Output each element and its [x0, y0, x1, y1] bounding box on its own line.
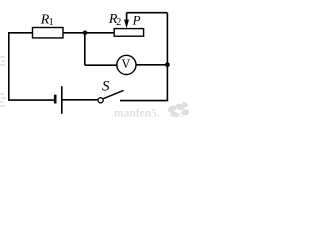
node junction dot B: [165, 62, 170, 67]
wire voltmeter branch vertical: [84, 33, 86, 65]
rheostat R2 slider arrow P: [124, 13, 129, 29]
label R2: [108, 12, 121, 28]
rheostat R2 body: [114, 29, 143, 37]
svg-text:P: P: [132, 13, 141, 28]
label R1: [40, 13, 54, 29]
wire bottom-left to battery: [8, 99, 54, 101]
svg-text:2: 2: [116, 17, 121, 28]
svg-text:manfen5.: manfen5.: [114, 108, 160, 119]
wire top-left horizontal: [8, 32, 33, 34]
node junction dot A: [83, 31, 88, 36]
watermark flower logo: [167, 101, 191, 119]
watermark left edge: [0, 56, 6, 107]
voltmeter V: [117, 55, 136, 74]
wire left vertical: [8, 33, 10, 100]
svg-text:V: V: [121, 57, 130, 71]
wire voltmeter branch horizontal: [85, 64, 117, 66]
resistor R1: [33, 28, 64, 38]
wire switch to bottom-right: [120, 100, 168, 102]
wire slider to top-right: [127, 12, 168, 14]
switch S: [98, 90, 124, 103]
battery cell: [55, 86, 62, 114]
svg-text:com: com: [170, 110, 185, 118]
wire voltmeter to right node: [136, 64, 167, 66]
svg-text:1: 1: [49, 17, 54, 28]
wire R1 to R2: [63, 32, 114, 34]
svg-text:S: S: [102, 78, 110, 94]
wire right vertical: [166, 13, 168, 101]
wire battery to switch: [63, 99, 99, 101]
